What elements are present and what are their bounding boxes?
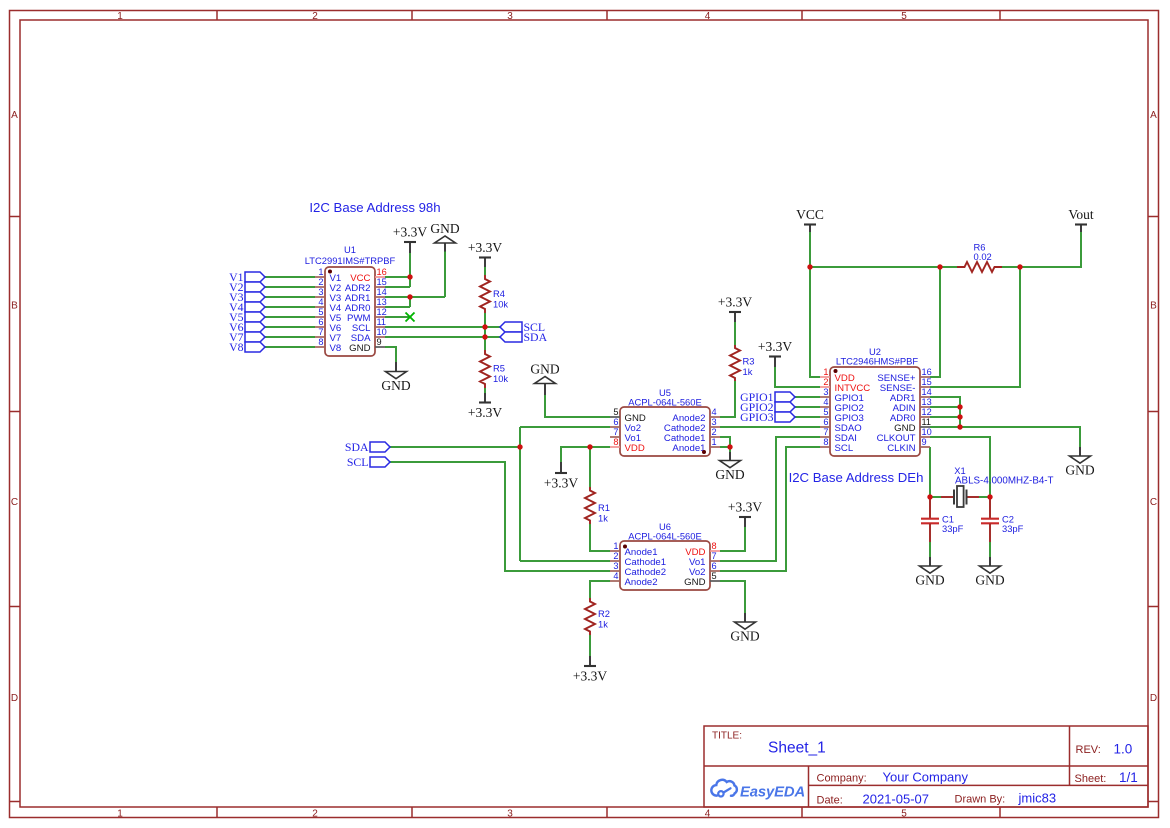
net flag SDA source	[345, 440, 390, 454]
svg-text:GND: GND	[530, 361, 559, 376]
wire V8 to U1 pin 8	[265, 346, 315, 348]
svg-text:8: 8	[318, 337, 323, 347]
svg-text:ACPL-064L-560E: ACPL-064L-560E	[628, 397, 702, 408]
wire VCC stem	[809, 232, 811, 267]
svg-text:2: 2	[712, 427, 717, 437]
junction at 410,277	[407, 274, 412, 279]
frame tick top	[411, 11, 413, 21]
wire U1.16 VCC	[385, 276, 410, 278]
resistor R3	[730, 345, 740, 381]
svg-text:+3.3V: +3.3V	[573, 669, 607, 684]
optocoupler U5 ACPL-064L	[610, 387, 720, 456]
net flag GPIO2	[740, 400, 795, 414]
wire U1.11 SCL	[385, 326, 500, 328]
wire U2.12 ADR0	[930, 416, 960, 418]
svg-text:C: C	[11, 497, 18, 508]
no-connect flag on U1 pin 12	[406, 313, 415, 322]
junction at 590,447	[587, 444, 592, 449]
power Vout	[1068, 207, 1094, 232]
wire GPIO3	[795, 416, 820, 418]
EasyEDA logo	[711, 780, 805, 801]
svg-text:11: 11	[377, 317, 387, 327]
svg-text:jmic83: jmic83	[1018, 791, 1057, 806]
capacitor C1	[921, 499, 939, 542]
ground below U5 pin 1	[715, 452, 744, 482]
svg-text:Drawn By:: Drawn By:	[955, 794, 1006, 806]
svg-text:A: A	[1150, 110, 1157, 121]
frame tick left	[10, 606, 21, 608]
svg-text:R3: R3	[743, 356, 755, 367]
frame tick right	[1148, 606, 1159, 608]
svg-text:33pF: 33pF	[1002, 523, 1024, 534]
svg-text:SCL: SCL	[835, 443, 854, 454]
svg-text:7: 7	[712, 551, 717, 561]
svg-text:2: 2	[613, 551, 618, 561]
svg-text:Company:: Company:	[817, 773, 867, 785]
ground above U1 ADR1	[430, 221, 459, 252]
frame tick bottom	[216, 807, 218, 818]
svg-text:D: D	[1150, 693, 1157, 704]
svg-text:12: 12	[922, 407, 932, 417]
wire U2.7 SDAI to U6.7 Vo1	[720, 437, 820, 561]
wire ADR0 link	[409, 297, 411, 307]
wire R2 to +3.3V	[589, 635, 591, 656]
svg-text:5: 5	[712, 571, 717, 581]
monitor U2 LTC2946	[820, 346, 932, 456]
svg-text:3: 3	[712, 417, 717, 427]
svg-text:+3.3V: +3.3V	[468, 405, 502, 420]
svg-text:V8: V8	[229, 340, 244, 354]
junction at 1020,267	[1017, 264, 1022, 269]
svg-text:GND: GND	[684, 577, 705, 588]
resistor R5	[480, 350, 490, 388]
svg-text:14: 14	[377, 287, 387, 297]
svg-text:0.02: 0.02	[974, 251, 992, 262]
svg-text:4: 4	[823, 397, 828, 407]
power +3.3V for U5 VDD	[544, 462, 578, 491]
svg-text:1: 1	[318, 267, 323, 277]
power +3.3V below R5	[468, 393, 502, 420]
junction at 940,267	[937, 264, 942, 269]
wire +3.3V to U5.8 VDD	[561, 447, 610, 462]
frame tick bottom	[999, 807, 1001, 818]
wire +3.3V drop	[409, 253, 411, 287]
wire C1 to GND	[929, 542, 931, 557]
svg-text:R4: R4	[493, 288, 505, 299]
wire to U6.2 Cathode1	[520, 560, 610, 562]
net flag V5	[229, 310, 265, 324]
svg-text:10: 10	[377, 327, 387, 337]
net flag V4	[229, 300, 265, 314]
svg-text:13: 13	[922, 397, 932, 407]
svg-text:4: 4	[712, 407, 717, 417]
optocoupler U6 ACPL-064L	[610, 521, 720, 590]
svg-text:Sheet_1: Sheet_1	[768, 740, 826, 757]
wire +3.3V to U2.2 INTVCC	[775, 367, 820, 387]
svg-text:SCL: SCL	[347, 455, 369, 469]
wire VDD node to R1	[589, 447, 591, 487]
wire +3.3V to R3	[734, 322, 736, 345]
wire U2.9 CLKIN	[929, 447, 931, 497]
svg-text:1/1: 1/1	[1119, 770, 1138, 785]
svg-text:SDA: SDA	[524, 330, 548, 344]
svg-text:8: 8	[823, 437, 828, 447]
wire U2.11 GND	[930, 427, 1080, 447]
svg-text:REV:: REV:	[1076, 744, 1101, 756]
svg-text:VCC: VCC	[796, 207, 824, 222]
power +3.3V above U1	[393, 225, 427, 254]
junction at 810,267	[807, 264, 812, 269]
svg-text:16: 16	[922, 367, 932, 377]
svg-text:1: 1	[117, 11, 123, 22]
wire U1.12 PWM	[385, 316, 410, 318]
svg-text:8: 8	[613, 437, 618, 447]
svg-text:GND: GND	[1065, 463, 1094, 478]
frame tick top	[801, 11, 803, 21]
svg-text:2: 2	[312, 11, 318, 22]
svg-text:Vout: Vout	[1068, 207, 1094, 222]
svg-text:8: 8	[712, 541, 717, 551]
svg-text:3: 3	[318, 287, 323, 297]
svg-text:I2C Base Address 98h: I2C Base Address 98h	[309, 200, 440, 215]
svg-text:+3.3V: +3.3V	[468, 240, 502, 255]
svg-text:1.0: 1.0	[1114, 742, 1133, 757]
junction at 730,447	[727, 444, 732, 449]
svg-text:6: 6	[712, 561, 717, 571]
svg-text:Anode2: Anode2	[625, 577, 658, 588]
frame tick right	[1148, 411, 1159, 413]
svg-text:9: 9	[377, 337, 382, 347]
wire V6 to U1 pin 6	[265, 326, 315, 328]
svg-text:A: A	[11, 110, 18, 121]
svg-text:TITLE:: TITLE:	[712, 731, 742, 742]
frame tick bottom	[411, 807, 413, 818]
frame tick left	[10, 216, 21, 218]
svg-text:7: 7	[318, 327, 323, 337]
svg-text:15: 15	[377, 277, 387, 287]
svg-text:V8: V8	[330, 343, 342, 354]
svg-text:B: B	[1150, 301, 1157, 312]
svg-text:2: 2	[318, 277, 323, 287]
frame tick top	[999, 11, 1001, 21]
wire U5.2 Cathode1	[720, 437, 730, 447]
junction at 485,327	[482, 324, 487, 329]
svg-text:VDD: VDD	[625, 443, 645, 454]
wire U5.3 Cathode2 to U2.6 SDAO	[720, 426, 820, 428]
svg-text:1k: 1k	[598, 619, 608, 630]
svg-text:10k: 10k	[493, 373, 508, 384]
ground for U5 pin 5	[530, 361, 559, 395]
svg-text:1: 1	[613, 541, 618, 551]
junction at 960,417	[957, 414, 962, 419]
svg-text:10: 10	[922, 427, 932, 437]
wire +3.3V to R4	[484, 267, 486, 275]
net flag SCL	[500, 320, 545, 334]
wire SDA vertical	[519, 427, 521, 561]
frame tick right	[1148, 801, 1159, 803]
svg-text:Anode1: Anode1	[672, 443, 705, 454]
svg-text:11: 11	[922, 417, 932, 427]
wire V7 to U1 pin 7	[265, 336, 315, 338]
power +3.3V for U2 INTVCC	[758, 339, 792, 367]
net flag V1	[229, 270, 265, 284]
wire U1.14 ADR1 to GND	[385, 296, 445, 298]
svg-text:1: 1	[117, 809, 123, 820]
net flag GPIO1	[740, 390, 795, 404]
svg-text:Sheet:: Sheet:	[1075, 773, 1107, 785]
svg-text:X1: X1	[954, 465, 965, 476]
svg-text:+3.3V: +3.3V	[718, 295, 752, 310]
wire SCL flag to U6.3	[390, 462, 610, 571]
svg-text:ACPL-064L-560E: ACPL-064L-560E	[628, 531, 702, 542]
wire U1.10 SDA	[385, 336, 500, 338]
wire GND drop	[444, 251, 446, 297]
net flag V3	[229, 290, 265, 304]
wire U1.9 GND	[385, 347, 396, 362]
power +3.3V for U6 VDD	[728, 500, 762, 528]
svg-text:13: 13	[377, 297, 387, 307]
svg-text:5: 5	[823, 407, 828, 417]
wire V3 to U1 pin 3	[265, 296, 315, 298]
svg-text:LTC2991IMS#TRPBF: LTC2991IMS#TRPBF	[305, 255, 396, 266]
wire V5 to U1 pin 5	[265, 316, 315, 318]
ground below C2	[975, 557, 1004, 588]
wire R6 to Vout	[1002, 232, 1081, 267]
junction at 930,497	[927, 494, 932, 499]
wire U2.13 ADIN	[930, 406, 960, 408]
frame tick top	[606, 11, 608, 21]
svg-text:D: D	[11, 693, 18, 704]
wire U6.4 Anode2 to R2	[590, 581, 610, 598]
junction at 520,447	[517, 444, 522, 449]
op-amp U1 LTC2991	[305, 244, 396, 356]
junction at 990,497	[987, 494, 992, 499]
svg-text:12: 12	[377, 307, 387, 317]
svg-text:C: C	[1150, 497, 1157, 508]
svg-text:R5: R5	[493, 363, 505, 374]
svg-text:3: 3	[823, 387, 828, 397]
svg-text:U1: U1	[344, 244, 356, 255]
svg-text:14: 14	[922, 387, 932, 397]
svg-text:B: B	[11, 301, 18, 312]
svg-text:7: 7	[823, 427, 828, 437]
frame tick top	[216, 11, 218, 21]
svg-text:3: 3	[507, 11, 513, 22]
svg-text:Date:: Date:	[817, 795, 843, 807]
wire R1 to U6.1 Anode1	[590, 524, 610, 551]
svg-text:GND: GND	[730, 629, 759, 644]
wire U2.16 SENSE+	[930, 267, 940, 377]
svg-text:15: 15	[922, 377, 932, 387]
wire V1 to U1 pin 1	[265, 276, 315, 278]
frame tick left	[10, 411, 21, 413]
svg-text:Your Company: Your Company	[883, 770, 969, 785]
resistor R1	[585, 487, 595, 524]
svg-text:16: 16	[377, 267, 387, 277]
net flag V6	[229, 320, 265, 334]
net flag V2	[229, 280, 265, 294]
wire U5.6 Vo2	[520, 426, 610, 428]
resistor R4	[480, 275, 490, 313]
svg-text:1k: 1k	[743, 366, 753, 377]
wire U2.14 ADR1	[930, 397, 960, 427]
svg-text:5: 5	[901, 809, 907, 820]
svg-text:GND: GND	[915, 573, 944, 588]
ground below U1 pin 9	[381, 362, 410, 393]
wire U1.13 ADR0	[385, 306, 410, 308]
crystal X1	[930, 486, 990, 507]
svg-text:ABLS-4.000MHZ-B4-T: ABLS-4.000MHZ-B4-T	[955, 476, 1054, 487]
svg-text:I2C Base Address DEh: I2C Base Address DEh	[789, 470, 924, 485]
svg-text:6: 6	[823, 417, 828, 427]
svg-text:2: 2	[823, 377, 828, 387]
svg-text:+3.3V: +3.3V	[544, 476, 578, 491]
power +3.3V above R4	[468, 240, 502, 267]
resistor R2	[585, 598, 595, 635]
junction at 960,407	[957, 404, 962, 409]
net flag SDA	[500, 330, 548, 344]
svg-text:9: 9	[922, 437, 927, 447]
wire GND to U5.5	[545, 395, 610, 417]
svg-text:SDA: SDA	[345, 440, 369, 454]
wire R5 to +3.3V	[484, 388, 486, 393]
svg-text:1k: 1k	[598, 513, 608, 524]
svg-text:10k: 10k	[493, 299, 508, 310]
svg-text:2021-05-07: 2021-05-07	[863, 792, 930, 807]
frame tick right	[1148, 216, 1159, 218]
svg-text:R1: R1	[598, 502, 610, 513]
frame tick bottom	[801, 807, 803, 818]
frame tick bottom	[606, 807, 608, 818]
ground for U6 pin 5	[730, 613, 759, 644]
svg-text:1: 1	[712, 437, 717, 447]
svg-text:3: 3	[613, 561, 618, 571]
svg-text:4: 4	[705, 809, 711, 820]
wire C2 to GND	[989, 542, 991, 557]
net flag GPIO3	[740, 410, 795, 424]
power VCC	[796, 207, 824, 232]
svg-text:5: 5	[613, 407, 618, 417]
svg-text:EasyEDA: EasyEDA	[740, 785, 805, 801]
svg-text:4: 4	[705, 11, 711, 22]
svg-text:7: 7	[613, 427, 618, 437]
wire U2.8 SCL to U6.6 Vo2	[720, 447, 820, 571]
power +3.3V below R2	[573, 656, 607, 684]
resistor R6	[957, 262, 1002, 272]
svg-text:GND: GND	[975, 573, 1004, 588]
wire VCC to U2.1 VDD	[810, 267, 820, 377]
capacitor C2	[981, 499, 999, 542]
svg-text:GND: GND	[349, 343, 370, 354]
net flag SCL source	[347, 455, 390, 469]
wire to GND	[729, 447, 731, 452]
wire U5.1 Anode1	[720, 446, 730, 448]
svg-text:CLKIN: CLKIN	[887, 443, 915, 454]
wire GPIO1	[795, 396, 820, 398]
svg-text:2: 2	[312, 809, 318, 820]
wire SDA flag	[390, 446, 520, 448]
svg-text:3: 3	[507, 809, 513, 820]
svg-text:GND: GND	[430, 221, 459, 236]
power +3.3V above R3	[718, 295, 752, 323]
svg-text:GND: GND	[381, 378, 410, 393]
wire VCC to R6	[810, 266, 957, 268]
svg-text:+3.3V: +3.3V	[728, 500, 762, 515]
title block	[704, 726, 1148, 807]
svg-text:4: 4	[613, 571, 618, 581]
svg-text:LTC2946HMS#PBF: LTC2946HMS#PBF	[836, 356, 918, 367]
svg-text:33pF: 33pF	[942, 523, 964, 534]
svg-text:GPIO3: GPIO3	[740, 410, 774, 424]
wire GPIO2	[795, 406, 820, 408]
svg-text:1: 1	[823, 367, 828, 377]
junction at 410,297	[407, 294, 412, 299]
junction at 485,337	[482, 334, 487, 339]
wire U5.4 Anode2 to R3	[720, 381, 735, 417]
wire U2.10 CLKOUT	[930, 437, 990, 497]
junction at 960,427	[957, 424, 962, 429]
net flag V7	[229, 330, 265, 344]
svg-text:5: 5	[901, 11, 907, 22]
svg-text:+3.3V: +3.3V	[393, 225, 427, 240]
wire U1.15 ADR2	[385, 286, 410, 288]
wire V4 to U1 pin 4	[265, 306, 315, 308]
wire U2.15 SENSE-	[930, 267, 1020, 387]
wire V2 to U1 pin 2	[265, 286, 315, 288]
wire U6.8 VDD to +3.3V	[720, 527, 745, 551]
ground for U2 pin 11	[1065, 447, 1094, 478]
ground below C1	[915, 557, 944, 588]
wire U6.5 GND	[720, 581, 745, 613]
svg-text:+3.3V: +3.3V	[758, 339, 792, 354]
net flag V8	[229, 340, 265, 354]
wire R4 to R5	[484, 313, 486, 350]
svg-text:R2: R2	[598, 608, 610, 619]
svg-text:6: 6	[318, 317, 323, 327]
svg-text:6: 6	[613, 417, 618, 427]
frame tick left	[10, 801, 21, 803]
svg-text:4: 4	[318, 297, 323, 307]
svg-text:GND: GND	[715, 467, 744, 482]
svg-text:5: 5	[318, 307, 323, 317]
